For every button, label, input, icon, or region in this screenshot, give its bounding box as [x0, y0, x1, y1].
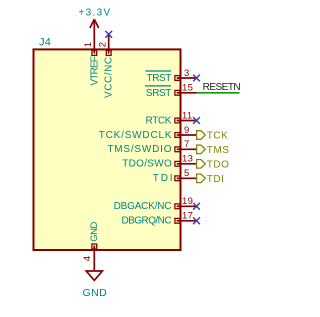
svg-text:DBGACK/NC: DBGACK/NC [114, 201, 172, 212]
svg-text:9: 9 [184, 125, 190, 136]
svg-text:19: 19 [182, 196, 193, 207]
svg-text:5: 5 [184, 168, 190, 179]
svg-text:TDI: TDI [207, 174, 225, 185]
svg-text:TCK/SWDCLK: TCK/SWDCLK [99, 130, 173, 141]
svg-text:17: 17 [182, 211, 193, 222]
svg-text:1: 1 [83, 42, 94, 48]
svg-text:GND: GND [89, 222, 100, 242]
svg-text:11: 11 [182, 110, 192, 121]
svg-text:TCK: TCK [207, 131, 229, 142]
svg-text:VCC/NC: VCC/NC [104, 56, 115, 98]
svg-text:TMS: TMS [207, 145, 230, 156]
svg-text:3: 3 [184, 68, 190, 79]
svg-text:RESETN: RESETN [203, 82, 241, 93]
svg-text:TRST: TRST [146, 73, 171, 84]
svg-text:J4: J4 [39, 36, 51, 48]
svg-text:TDO/SWO: TDO/SWO [122, 159, 172, 170]
svg-text:13: 13 [182, 154, 193, 165]
svg-text:4: 4 [82, 256, 93, 262]
svg-text:TDI: TDI [153, 173, 175, 184]
svg-text:SRST: SRST [146, 88, 171, 99]
svg-text:15: 15 [182, 83, 193, 94]
svg-text:+3.3V: +3.3V [79, 8, 112, 19]
svg-text:TDO: TDO [207, 159, 230, 170]
svg-text:DBGRQ/NC: DBGRQ/NC [122, 216, 172, 227]
svg-text:2: 2 [98, 42, 109, 48]
svg-text:GND: GND [83, 287, 108, 299]
svg-text:TMS/SWDIO: TMS/SWDIO [107, 144, 172, 155]
svg-text:VTREF: VTREF [89, 56, 100, 85]
svg-text:7: 7 [184, 139, 190, 150]
svg-text:RTCK: RTCK [146, 115, 172, 126]
